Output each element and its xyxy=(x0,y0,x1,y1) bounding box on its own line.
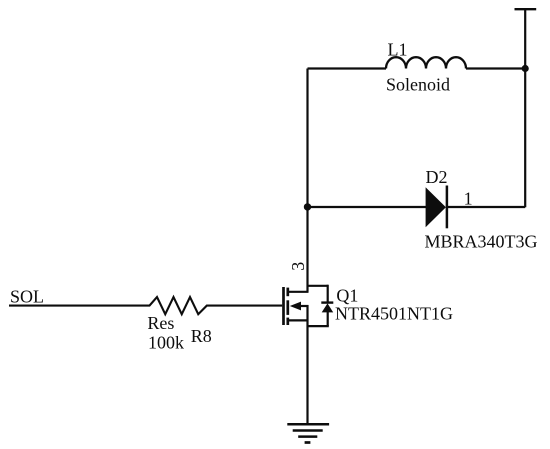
power rail bar xyxy=(515,8,537,10)
svg-text:MBRA340T3G: MBRA340T3G xyxy=(425,232,538,252)
wire: source vertical to ground xyxy=(306,305,308,424)
svg-text:L1: L1 xyxy=(388,40,408,60)
svg-text:Res: Res xyxy=(147,313,174,333)
wire: diode row left xyxy=(308,206,427,208)
transistor Q1 channel segments xyxy=(286,288,289,297)
svg-text:1: 1 xyxy=(464,189,473,209)
transistor Q1 gate bar xyxy=(282,287,285,325)
body diode of Q1 xyxy=(321,301,333,303)
svg-text:Q1: Q1 xyxy=(336,286,358,306)
wire: inductor row right xyxy=(466,67,525,69)
svg-text:R8: R8 xyxy=(191,326,212,346)
node: junction top-right xyxy=(522,65,529,72)
transistor Q1 bulk tab with arrow xyxy=(300,305,309,307)
svg-text:3: 3 xyxy=(288,262,308,271)
node: junction diode row xyxy=(304,203,311,210)
ground xyxy=(287,423,329,426)
wire: gate wire with resistor R8 xyxy=(9,297,282,314)
transistor Q1 drain tab xyxy=(287,291,309,293)
svg-text:SOL: SOL xyxy=(10,286,44,306)
wire: left vertical (drain branch) xyxy=(306,69,308,292)
wire: body-diode branch bottom xyxy=(327,312,329,326)
inductor L1 xyxy=(386,57,466,68)
wire: body-diode branch top xyxy=(307,285,328,287)
wire: power rail vertical xyxy=(524,9,526,207)
svg-text:NTR4501NT1G: NTR4501NT1G xyxy=(335,304,453,324)
wire: inductor row left xyxy=(308,67,387,69)
svg-text:Solenoid: Solenoid xyxy=(386,75,450,95)
wire: diode row right xyxy=(447,206,525,208)
transistor Q1 source tab xyxy=(287,319,309,321)
diode D2 xyxy=(426,187,446,227)
svg-text:100k: 100k xyxy=(148,333,184,353)
svg-text:D2: D2 xyxy=(426,167,448,187)
